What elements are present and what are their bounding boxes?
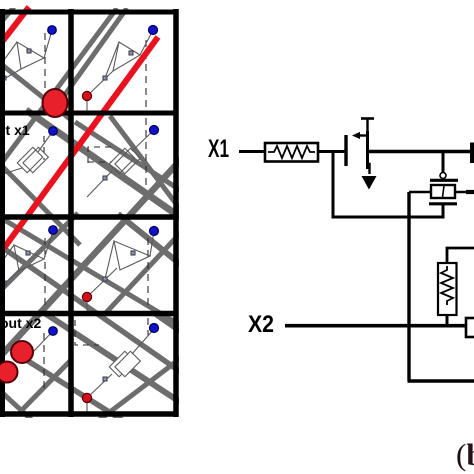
resistor R2 bottom lead [446,315,449,326]
down arrow head [362,176,377,190]
routing line gray P2 [43,312,180,402]
cell B2 resistor box rotated [109,145,140,176]
routing line gray u1 [0,8,117,165]
blue node cell A1 [48,26,57,35]
cell B3 node squares [103,277,107,281]
cell B1 node squares [103,76,107,80]
cell B4 node square [103,377,107,381]
routing line gray d1 row2 [75,122,180,190]
transistor Q1 source stub with arrow [360,134,368,136]
resistor R1 box [265,143,318,162]
cell A2 dashed marks [43,136,45,160]
svg-text:X1: X1 [208,135,229,163]
switch blob large circle r4b [0,362,18,383]
routing line gray d8 [152,312,185,335]
resistor R1 zigzag [268,146,315,158]
resistor R2 top lead [447,248,474,263]
right edge pad [470,143,474,164]
routing line gray dX [0,164,80,245]
grid vertical left [0,9,5,417]
routing line gray d9 corner stub [0,7,14,28]
feedback branch horizontal [332,216,445,219]
transistor Q1 drain lead to VDD [366,119,368,134]
blue node cell B1 [149,26,158,35]
red route segment A top-left [0,7,29,47]
red node cell B1 [82,91,91,100]
routing line gray u4 [20,360,71,412]
grid horizontal top [0,10,178,15]
grid horizontal r3-r4 [0,311,178,317]
memristor M1 bubble [440,173,446,179]
memristor M1 body box [431,185,455,198]
transistor Q1 gate bar [344,135,347,166]
routing line gray s1 steep [110,116,186,217]
routing line gray d2 thick [26,110,183,219]
memristor M1 bottom plate [429,202,457,205]
blue node cell A3 [49,226,58,235]
cell B1 lead wires [87,30,153,96]
red node cell B4 [82,393,91,402]
red node cell B3 [82,292,91,301]
cell A3 node squares [26,251,30,255]
switch blob large circle r4a [11,341,33,363]
cell A4 dashed column line [43,333,45,388]
routing line gray d3 [0,215,180,325]
red route segment B long diagonal [4,37,158,248]
routing line gray d3b [0,243,185,375]
svg-text:X2: X2 [248,311,274,338]
cell B3 lead wires [87,231,154,297]
cell B3 red-node stem [86,297,88,311]
routing line gray u6 [94,355,185,424]
routing line gray u5 [102,228,185,317]
cell B4 resistor box rotated [109,348,140,379]
transistor Q1 arrow head [352,132,360,139]
memristor M1 top plate [430,179,458,182]
wire X2 [285,324,466,328]
cell B2 node square [103,176,107,180]
blue node cell B2 [150,126,159,135]
VDD T-bar [361,117,374,120]
X2 right component box [466,318,474,337]
blue node cell A4 [49,327,58,336]
output wire [368,150,472,153]
wire resistor to gate [318,150,346,153]
cell B1 dashed column line [145,40,147,110]
memristor M1 divider [443,186,445,198]
blue node cell A2 [49,127,58,136]
grid vertical middle [68,9,74,417]
cell A4 lead wire [33,331,53,352]
cell B2 lead wire [87,130,154,197]
grid vertical right [173,9,179,417]
memristor M1 left terminal wire [409,191,431,194]
cell B1 red-node stem [86,96,88,111]
cell A3 dashed column line [44,238,46,306]
cell B4 lead wire [87,329,154,398]
grid horizontal r2-r3 [0,214,178,220]
memristor M1 top lead [442,152,445,173]
memristor M1 right terminal wire [455,191,474,194]
cell A1 node squares [27,49,31,53]
right terminal stub thick [466,190,474,194]
cell A1 dashed column line [44,33,46,106]
cell B4 dashed bracket [75,320,99,345]
cell B1 op-amp triangle [113,42,140,71]
routing line gray u2 long thick [0,155,185,361]
routing line gray d4 [118,214,185,268]
svg-text:out x2: out x2 [0,315,41,331]
transistor Q2 source step [368,164,370,174]
cell B4 red-node stem [86,398,88,412]
blue node cell B3 [150,227,159,236]
cell A1 lead wires [4,30,52,79]
wire X1 to resistor [239,150,265,153]
feedback branch vertical [332,152,335,218]
routing line gray u1b [54,8,127,110]
resistor R2 box [438,263,457,315]
svg-text:(b: (b [456,437,474,472]
routing line gray d7 [0,387,36,424]
switch blob large ellipse r1 [43,89,68,117]
blue node cell B4 [150,324,159,333]
cell A2 resistor box rotated [17,144,48,175]
bottom wire [408,379,474,382]
routing line gray d1 row1 [0,60,70,119]
cell B3 dashed column line [147,238,149,306]
routing line gray P3 [28,361,122,420]
resistor R2 zigzag [441,266,453,305]
cell A2 lead wire [3,131,53,174]
svg-text:ut x1: ut x1 [0,122,30,138]
cell A2 node square [0,167,4,172]
cell A1 op-amp triangle [17,42,44,69]
memristor M1 bottom lead [442,204,445,219]
routing line gray u3a [0,213,78,291]
cell A3 op-amp triangle [14,245,44,271]
transistor Q1 channel bar [366,131,369,169]
cell B4 dashed column line [147,318,149,336]
cell B2 dashed column line [145,118,147,190]
cell B2 dashed bracket [88,147,116,163]
grid horizontal r1-r2 [0,111,178,116]
cell A3 lead wires [3,231,53,284]
cell B3 op-amp triangle [114,241,150,270]
bus vertical left [407,192,410,381]
grid horizontal bottom [0,411,178,417]
